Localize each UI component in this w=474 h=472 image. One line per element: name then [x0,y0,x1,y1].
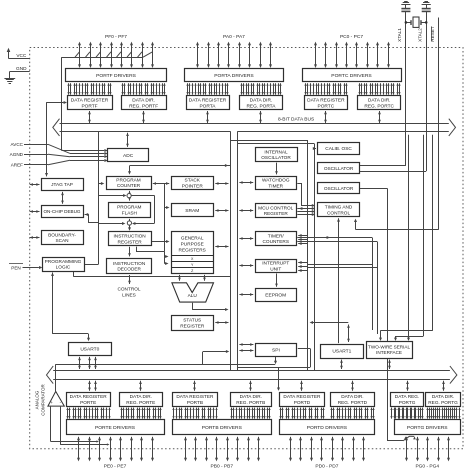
PROGRAM COUNTER [107,177,152,190]
svg-text:DATA REGISTER: DATA REGISTER [176,394,214,400]
wire DATA REGISTER PORTF to data bus [89,111,91,123]
wire PROGRAM FLASH to INSTRUCTION REGISTER via node [127,219,131,231]
wire rail C to INTERRUPT UNIT right side [298,261,377,272]
wire rail taps to TWO-WIRE SERIAL INTERFACE (v1) [407,135,410,341]
vertical bus rail C branch (right) [230,140,307,371]
svg-text:PORTB: PORTB [187,400,203,406]
svg-text:REGISTER: REGISTER [180,323,205,329]
wire DATA DIR. REG. PORTD to data bus [352,381,354,391]
svg-text:REG. PORTC: REG. PORTC [364,103,394,109]
svg-text:DATA REGISTER: DATA REGISTER [283,394,321,400]
wire TIMER/COUNTERS to timing and control verticals [297,236,377,334]
DATA DIR. REG. PORTA [240,96,283,110]
ON-CHIP DEBUG [42,206,84,218]
TWO-WIRE SERIAL INTERFACE [367,342,413,359]
wire data bus to PROGRAM COUNTER [128,164,230,175]
wire DATA DIR. REG. PORTE to data bus [140,381,142,391]
svg-text:DATA REGISTER: DATA REGISTER [70,394,108,400]
PORTG DRIVERS [395,420,461,435]
JTAG TAP [42,179,84,191]
wire ON-CHIP DEBUG port interface [30,211,40,213]
arrow comb PORTE data register to drivers [66,408,110,419]
svg-text:POINTER: POINTER [182,183,204,189]
svg-text:COUNTER: COUNTER [117,183,141,189]
chip boundary (dashed border) [30,48,463,449]
node program address to instruction path [132,196,155,226]
wire SRAM to bus rail [215,210,228,212]
arrow comb PORTF drivers to data register [67,83,111,94]
svg-text:PB0 - PB7: PB0 - PB7 [211,463,234,469]
svg-text:REG. PORTE: REG. PORTE [126,400,155,406]
arrow comb PORTF drivers to data direction register [121,83,165,94]
svg-text:CONTROL: CONTROL [117,286,140,292]
wire BOUNDARY-SCAN port interface [30,237,40,239]
INSTRUCTION DECODER [107,259,152,274]
svg-text:PORTB DRIVERS: PORTB DRIVERS [202,425,243,431]
wire DATA REGISTER PORTD to data bus [301,381,303,391]
vertical bus rail D branch (far right) [238,144,315,371]
svg-text:XTAL1: XTAL1 [397,28,402,42]
DATA DIR. REG. PORTE [120,393,163,407]
INSTRUCTION REGISTER [109,232,152,246]
wire ON-CHIP DEBUG to program memory node [85,213,99,223]
TIMER/COUNTERS [256,232,297,246]
vertical bus rail B [237,131,239,371]
svg-text:PROGRAMMING: PROGRAMMING [45,259,82,265]
wire bus rail to MCU CONTROL REGISTER [239,210,253,212]
svg-text:SCAN: SCAN [55,238,69,244]
OSCILLATOR (timer) [318,183,360,194]
svg-text:REG. PORTA: REG. PORTA [246,103,276,109]
wire JTAG TAP to ON-CHIP DEBUG [62,192,64,204]
wire STATUS REGISTER to bus rail [215,322,228,324]
wire bus rail to EEPROM [239,294,253,296]
svg-text:PD0 - PD7: PD0 - PD7 [315,463,338,469]
wire bus rail to TIMER/COUNTERS [239,238,253,240]
SRAM [172,204,214,217]
svg-text:EEPROM: EEPROM [265,293,286,299]
label CONTROL LINES [117,286,140,298]
wire JTAG TAP port interface [30,184,40,186]
wire rail B to rail C bottom link [238,367,311,369]
svg-text:PORTA DRIVERS: PORTA DRIVERS [214,73,254,79]
wires USART0 to data bus [78,357,97,369]
PROGRAMMING LOGIC [43,258,85,272]
svg-text:TIMER: TIMER [268,184,283,190]
wire XTAL1 to OSCILLATOR [360,165,406,167]
ground symbol [4,79,15,84]
PORTD DRIVERS [280,420,375,435]
svg-text:STACK: STACK [185,178,201,184]
INTERNAL OSCILLATOR [256,148,298,162]
USART0 [69,343,112,356]
wire TWO-WIRE SERIAL INTERFACE to data bus [389,360,391,369]
wire WATCHDOG TIMER to timing and control [297,183,315,207]
svg-text:MCU CONTROL: MCU CONTROL [258,205,294,211]
power pin VCC [7,48,30,59]
WATCHDOG TIMER [256,177,297,190]
svg-text:ON-CHIP DEBUG: ON-CHIP DEBUG [43,209,80,214]
svg-text:PEN: PEN [11,265,20,270]
EEPROM [256,289,297,302]
DATA DIR. REG. PORTF [122,96,167,110]
arrow comb PORTD data register to drivers [279,408,324,419]
svg-text:VCC: VCC [16,53,27,59]
svg-text:AVCC: AVCC [11,142,24,147]
wire DATA REGISTER PORTB to data bus [194,381,196,391]
wire ADC to data bus [127,133,129,147]
svg-text:UNIT: UNIT [270,266,281,272]
data bus top horizontal (hollow arrows both ends) [53,119,456,136]
svg-text:PC0 - PC7: PC0 - PC7 [340,34,363,40]
svg-text:USART1: USART1 [332,349,351,355]
wire register file to ALU (right operand) [204,275,206,281]
wire rail taps to TWO-WIRE SERIAL INTERFACE (v3) [379,135,433,341]
wire ALU output to bus rail [192,303,228,311]
data bus bottom horizontal (hollow arrows both ends) [47,366,457,384]
wire program memory riser (bus to PROGRAMMING LOGIC) [85,132,125,265]
USART1 [321,345,364,359]
svg-text:PORTG DRIVERS: PORTG DRIVERS [407,425,448,431]
svg-text:REG. PORTB: REG. PORTB [236,400,265,406]
svg-text:PA0 - PA7: PA0 - PA7 [223,34,245,40]
svg-text:PG0 - PG4: PG0 - PG4 [415,463,439,469]
PORTB DRIVERS [173,420,272,435]
svg-text:DATA REGISTER: DATA REGISTER [189,98,227,104]
svg-text:DECODER: DECODER [117,267,141,273]
svg-text:PORTE DRIVERS: PORTE DRIVERS [95,425,136,431]
wire PORTF pins analog mux tap to ADC [62,52,153,152]
svg-text:COUNTERS: COUNTERS [263,239,289,245]
svg-text:PORTD: PORTD [294,400,311,406]
PORTC pin lines PC0 - PC7 [314,42,390,68]
wire TIMING AND CONTROL to USART1 [310,218,349,343]
wire GENERAL PURPOSE REGISTERS to bus rail [215,246,228,248]
svg-text:PROGRAM: PROGRAM [117,205,141,211]
DATA DIR. REG. PORTC [358,96,401,110]
svg-text:PE0 - PE7: PE0 - PE7 [104,463,127,469]
TIMING AND CONTROL [318,203,360,217]
DATA REGISTER PORTF [68,96,113,110]
wire comparator input AIN1 [61,407,110,446]
svg-text:PORTG: PORTG [399,400,416,406]
svg-text:REG. PORTG: REG. PORTG [428,400,458,406]
DATA DIR. REG. PORTB [231,393,272,407]
svg-text:PURPOSE: PURPOSE [181,241,204,247]
svg-text:LOGIC: LOGIC [56,265,71,271]
svg-text:ANALOG: ANALOG [34,390,39,409]
wire INSTRUCTION REGISTER to INSTRUCTION DECODER [129,247,131,257]
wire INSTRUCTION REGISTER to GENERAL PURPOSE REGISTERS [152,240,170,243]
PORTE pin lines PE0 - PE7 [77,437,154,462]
svg-text:PORTC DRIVERS: PORTC DRIVERS [331,73,372,79]
ground pin GND [10,66,30,79]
svg-text:LINES: LINES [122,292,136,298]
wire timer OSCILLATOR to TOSC pins on PORTG [360,188,416,441]
arrow comb PORTG data register to drivers [390,408,423,419]
arrow comb PORTE data direction register to drivers [120,408,161,419]
wire rail D to CALIB. OSC [313,147,316,150]
arrow comb PORTD data direction register to drivers [330,408,374,419]
wire PROGRAM COUNTER to PROGRAM FLASH via address node [127,191,131,201]
wire comparator input AIN0 [51,407,100,443]
svg-text:ALU: ALU [188,293,198,299]
svg-text:DATA DIR.: DATA DIR. [368,98,391,104]
BOUNDARY-SCAN [42,231,84,245]
svg-text:DATA DIR.: DATA DIR. [432,394,454,400]
wire DATA REGISTER PORTG to data bus [407,381,409,391]
svg-text:PORTE: PORTE [80,400,96,406]
PORTA pin lines PA0 - PA7 [196,42,272,68]
svg-text:USART0: USART0 [80,347,99,353]
MCU CONTROL REGISTER [256,204,297,218]
label ANALOG COMPARATOR [34,384,45,416]
DATA REGISTER PORTE [67,393,111,407]
arrow comb PORTG data direction register to drivers [426,408,460,419]
XTAL1 pin with capacitor and ground [397,2,411,166]
wire bus rail to SPI (upper) [239,344,253,346]
svg-text:ADC: ADC [123,153,134,159]
ADC [108,149,149,162]
wire register file to ALU (left operand) [179,275,181,281]
wire INTERNAL OSCILLATOR to WATCHDOG TIMER [276,163,278,175]
analog ground pin AGND [10,152,108,158]
svg-text:DATA DIR.: DATA DIR. [240,394,262,400]
svg-text:PORTC: PORTC [318,103,335,109]
svg-text:INSTRUCTION: INSTRUCTION [113,234,146,240]
wire PROGRAMMING LOGIC to data bus [73,272,230,277]
DATA REGISTER PORTC [305,96,348,110]
PORTG pin lines PG0 - PG4 [405,437,450,462]
svg-text:RESET: RESET [430,26,435,42]
wire program counter link down to SRAM and register file [164,183,169,252]
op-amp style ALU [172,283,214,302]
svg-text:REGISTER: REGISTER [264,211,289,217]
wire INSTRUCTION DECODER to control lines [129,275,131,284]
wire port net branch to DATA REGISTER PORTD [277,367,280,391]
PORTD pin lines PD0 - PD7 [289,437,365,462]
wire RESET to TIMING AND CONTROL [354,219,439,230]
svg-text:8-BIT DATA BUS: 8-BIT DATA BUS [278,117,314,123]
wire bus rail to INTERRUPT UNIT [239,265,253,267]
svg-text:JTAG TAP: JTAG TAP [51,182,73,188]
svg-text:PORTF: PORTF [81,103,97,109]
svg-text:INTERRUPT: INTERRUPT [262,261,289,267]
arrow comb PORTA drivers to data register [186,83,228,94]
svg-text:REG. PORTF: REG. PORTF [129,103,158,109]
comparator triangle [48,391,64,406]
DATA DIR. REG. PORTD [331,393,375,407]
RESET pin [430,18,438,230]
DATA REGISTER PORTD [280,393,325,407]
STATUS REGISTER [172,316,214,331]
svg-text:INSTRUCTION: INSTRUCTION [113,261,146,267]
INTERRUPT UNIT [256,260,297,273]
wire bus rail to WATCHDOG TIMER [239,182,253,184]
svg-text:DATA DIR.: DATA DIR. [130,394,152,400]
svg-text:TIMING AND: TIMING AND [325,205,353,211]
svg-text:PORTF DRIVERS: PORTF DRIVERS [96,73,137,79]
XTAL2 pin with capacitor and ground [417,2,431,172]
GENERAL PURPOSE REGISTERS with X Y Z rows [171,232,214,274]
DATA REGISTER PORTG [391,393,424,407]
analog supply pin AVCC [11,142,108,155]
svg-text:GND: GND [16,66,27,72]
wire PROGRAM COUNTER to STACK POINTER [153,183,169,185]
input pin PEN [9,264,42,271]
PORTF pin lines PF0 - PF7 [78,42,154,68]
svg-text:TIMER/: TIMER/ [268,233,285,239]
wire control node to USART1 [348,325,350,343]
wire DATA DIR. REG. PORTF to data bus [143,111,145,123]
arrow comb PORTA drivers to data direction register [240,83,281,94]
wire DATA REGISTER PORTA to data bus [207,111,209,123]
wire rail C to TIMER/COUNTERS right side [298,234,308,245]
svg-text:DATA DIR.: DATA DIR. [250,98,273,104]
svg-text:COMPARATOR: COMPARATOR [40,384,45,416]
wire XTAL2 to OSCILLATOR [360,171,426,173]
svg-text:AGND: AGND [10,152,24,157]
svg-text:OSCILLATOR: OSCILLATOR [324,166,354,172]
vertical bus rail A (left) [230,131,232,371]
wire JTAG TAP to DATA REGISTER PORTF [45,101,67,176]
wire INSTRUCTION REGISTER to register file rows [136,247,169,265]
wire USART1 to data bus [341,360,343,369]
svg-text:SPI: SPI [272,348,280,354]
svg-text:DATA DIR.: DATA DIR. [132,98,155,104]
arrow comb PORTC drivers to data direction register [358,83,400,94]
wire DATA DIR. REG. PORTC to data bus [379,111,381,123]
node program address latch (left feed) [99,194,127,197]
PORTB pin lines PB0 - PB7 [184,437,260,462]
wire STACK POINTER to bus rail [215,183,228,185]
svg-text:DATA REGISTER: DATA REGISTER [71,98,109,104]
wire MCU CONTROL REGISTER to TIMING AND CONTROL [297,207,315,216]
CALIB. OSC [318,143,360,155]
arrow comb PORTB data register to drivers [172,408,217,419]
PORTF DRIVERS [66,69,167,82]
svg-text:PORTA: PORTA [200,103,217,109]
wire SPI to port net (right) [298,349,311,368]
analog reference pin AREF [11,159,108,167]
DATA REGISTER PORTB [173,393,218,407]
wire DATA DIR. REG. PORTG to data bus [443,381,445,391]
svg-text:CALIB. OSC: CALIB. OSC [325,146,352,152]
svg-text:PF0 - PF7: PF0 - PF7 [105,34,127,40]
PORTC DRIVERS [303,69,402,82]
svg-text:CONTROL: CONTROL [327,210,350,216]
svg-text:REG. PORTD: REG. PORTD [338,400,368,406]
svg-text:SRAM: SRAM [185,208,199,214]
svg-text:DATA REGISTER: DATA REGISTER [307,98,345,104]
wire DATA REGISTER PORTE to data bus [88,381,97,391]
OSCILLATOR (main) [318,163,360,174]
svg-text:GENERAL: GENERAL [181,235,204,241]
wire bus rail to SPI (lower) [239,350,253,352]
crystal Y1 between XTAL1 and XTAL2 [405,17,428,27]
svg-text:STATUS: STATUS [183,318,201,324]
wire DATA DIR. REG. PORTB to data bus [250,381,252,391]
wire rail taps to TWO-WIRE SERIAL INTERFACE (v2) [394,135,424,341]
wire DATA DIR. REG. PORTA to data bus [260,111,262,123]
DATA REGISTER PORTA [187,96,230,110]
arrow comb PORTB data direction register to drivers [230,408,270,419]
wire SPI to port pin net [274,357,277,364]
wire comparator net to bus rail [203,350,230,364]
STACK POINTER [172,177,214,190]
wire DATA REGISTER PORTC to data bus [325,111,327,123]
svg-text:REGISTER: REGISTER [118,239,143,245]
svg-text:FLASH: FLASH [122,211,138,217]
svg-text:REGISTERS: REGISTERS [179,247,206,253]
PROGRAM FLASH [109,203,151,218]
svg-text:WATCHDOG: WATCHDOG [262,178,290,184]
arrow comb PORTC drivers to data register [304,83,347,94]
wire comparator output [56,364,276,391]
svg-text:AREF: AREF [11,162,23,167]
PORTA DRIVERS [185,69,284,82]
svg-text:DATA DIR.: DATA DIR. [341,394,363,400]
wire INTERRUPT UNIT to EEPROM [276,274,278,287]
wire PROGRAMMING LOGIC to USART0 [51,273,90,342]
DATA DIR. REG. PORTG [426,393,461,407]
svg-text:DATA REG.: DATA REG. [395,394,419,400]
svg-text:PROGRAM: PROGRAM [116,178,140,184]
PORTE DRIVERS [67,420,165,435]
svg-text:XTAL2: XTAL2 [417,28,422,42]
svg-text:INTERNAL: INTERNAL [264,149,288,155]
svg-text:OSCILLATOR: OSCILLATOR [324,186,354,192]
svg-text:OSCILLATOR: OSCILLATOR [261,155,291,161]
svg-text:BOUNDARY-: BOUNDARY- [48,232,76,238]
svg-text:TWO-WIRE SERIAL: TWO-WIRE SERIAL [368,344,410,349]
svg-text:INTERFACE: INTERFACE [376,350,402,355]
svg-text:PORTD DRIVERS: PORTD DRIVERS [307,425,348,431]
SPI [256,344,297,357]
